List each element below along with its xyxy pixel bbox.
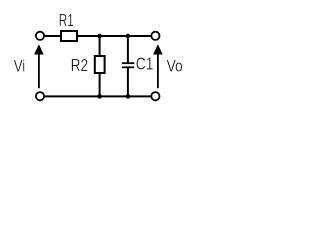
svg-text:Vi: Vi xyxy=(14,57,26,76)
label C1 xyxy=(136,55,154,74)
label R1 xyxy=(59,11,74,31)
terminal input top xyxy=(36,32,44,40)
wire C1 vertical bottom xyxy=(127,67,129,96)
voltage arrow Vi xyxy=(38,54,40,89)
svg-text:C1: C1 xyxy=(136,55,154,74)
resistor R2 (shunt) xyxy=(95,56,105,73)
node junction bottom C1 xyxy=(126,94,131,99)
capacitor C1 plates xyxy=(122,62,134,64)
wire R2 vertical top xyxy=(99,36,101,57)
label Vo xyxy=(167,57,183,75)
wire bottom: ground rail xyxy=(45,95,151,97)
voltage arrow Vo xyxy=(157,54,159,89)
wire C1 vertical top xyxy=(127,36,129,63)
wire top-right: R1 to output terminal xyxy=(77,35,151,37)
terminal output top xyxy=(151,32,159,40)
node junction top R2 xyxy=(97,34,102,39)
svg-text:Vo: Vo xyxy=(167,57,183,75)
wire top-left: input terminal to R1 xyxy=(45,35,61,37)
label Vi xyxy=(14,57,26,76)
node junction top C1 xyxy=(126,34,131,39)
svg-text:R1: R1 xyxy=(59,11,74,31)
resistor R1 (series, top) xyxy=(61,31,77,41)
node junction bottom R2 xyxy=(97,94,102,99)
label R2 xyxy=(71,56,89,75)
terminal output bottom xyxy=(151,92,159,100)
wire R2 vertical bottom xyxy=(99,72,101,96)
terminal input bottom xyxy=(36,92,44,100)
svg-text:R2: R2 xyxy=(71,56,89,75)
